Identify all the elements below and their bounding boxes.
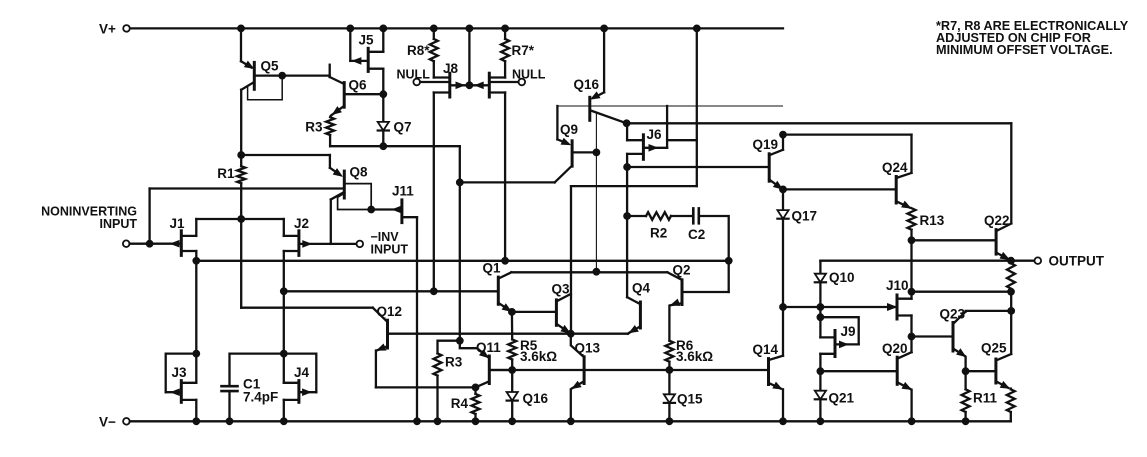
jfet J6	[627, 135, 667, 160]
label Q2	[673, 263, 691, 278]
junction R1 / input pair	[238, 216, 245, 223]
transistor Q22	[996, 224, 1011, 260]
label Q17	[792, 209, 818, 224]
diode Q16 bottom	[507, 370, 518, 421]
wire J2 top to pair rail	[283, 219, 285, 236]
junction Q6 base node	[380, 91, 387, 98]
resistor R3	[326, 117, 334, 135]
label NULL right	[512, 68, 546, 82]
wire Q13 emitter down	[570, 389, 572, 421]
transistor Q6	[330, 65, 384, 116]
svg-text:Q11: Q11	[476, 340, 501, 355]
junction Q22 emitter / output	[1008, 257, 1015, 264]
svg-text:J4: J4	[294, 365, 310, 380]
wire J10 drain up	[910, 292, 912, 299]
junction J4 top	[280, 350, 287, 357]
svg-text:J2: J2	[294, 216, 309, 231]
svg-text:Q6: Q6	[349, 78, 368, 93]
svg-text:J10: J10	[886, 278, 909, 293]
svg-text:3.6kΩ: 3.6kΩ	[520, 349, 557, 364]
wire V+ rail	[130, 27, 783, 29]
label J1	[170, 216, 186, 231]
transistor Q5	[241, 62, 330, 90]
wire J4 drain	[283, 354, 285, 383]
svg-text:Q15: Q15	[677, 392, 703, 407]
junction V- rail / R3b	[434, 418, 441, 425]
junction on V+ rail (R8)	[430, 25, 437, 32]
svg-text:R11: R11	[973, 391, 998, 406]
label Q22	[984, 213, 1010, 228]
junction null center	[466, 82, 473, 89]
wire C1 top lead	[230, 354, 284, 387]
wire J3 source to V-	[195, 400, 197, 421]
wire J3 gate loop	[166, 354, 197, 393]
jfet J11	[371, 200, 417, 223]
wire bus y291 to Q25 collector	[912, 291, 1012, 293]
wire bus y182 to Q9 collector	[460, 181, 555, 183]
junction Q8 loop / J11 gate	[368, 206, 375, 213]
resistor R2	[646, 212, 671, 220]
note R7 R8	[936, 19, 1129, 57]
label Q10	[829, 270, 855, 285]
label R6 value	[676, 338, 713, 364]
jfet J9	[820, 331, 858, 357]
wire Q2 emitter to R6	[668, 306, 670, 341]
label Q4	[632, 281, 651, 296]
svg-text:J5: J5	[359, 33, 375, 48]
label Q12	[377, 304, 403, 319]
wire J6 source down	[626, 154, 628, 297]
label R3 second	[445, 355, 463, 370]
svg-text:Q12: Q12	[377, 304, 403, 319]
label R3	[305, 120, 323, 135]
wire J8 source down	[433, 93, 435, 292]
junction J9 top	[817, 314, 824, 321]
junction Q23 collector / Q25 collector	[1008, 308, 1015, 315]
junction V- rail / J4	[280, 418, 287, 425]
wire R13 node down	[910, 240, 912, 291]
svg-text:V+: V+	[99, 22, 116, 37]
wire NULL left lead	[420, 81, 450, 83]
svg-text:INPUT: INPUT	[100, 217, 138, 231]
label Q24	[882, 160, 908, 175]
transistor Q1	[498, 272, 511, 311]
wire y186 over to mirror	[571, 185, 697, 187]
junction V- rail / C1	[226, 418, 233, 425]
junction V- rail / R11	[962, 418, 969, 425]
jfet J2	[284, 231, 311, 256]
label C1 value	[243, 377, 278, 405]
svg-text:Q1: Q1	[483, 261, 502, 276]
wire output bus	[820, 260, 1034, 262]
label Q9	[560, 122, 578, 137]
wire to Q25 base	[966, 370, 996, 372]
node V+ label	[99, 22, 116, 37]
label Q1	[483, 261, 502, 276]
resistor R13	[908, 208, 916, 240]
wire Q8 collector down	[330, 200, 332, 244]
svg-text:Q17: Q17	[792, 209, 818, 224]
svg-text:NULL: NULL	[512, 68, 546, 82]
label R5 value	[520, 338, 557, 364]
svg-text:MINIMUM OFFSET VOLTAGE.: MINIMUM OFFSET VOLTAGE.	[936, 43, 1113, 57]
svg-text:R7*: R7*	[512, 43, 535, 58]
svg-text:Q4: Q4	[632, 281, 651, 296]
terminal NULL right	[519, 79, 526, 86]
svg-text:Q9: Q9	[560, 122, 578, 137]
wire J9 drain	[819, 307, 821, 337]
svg-text:3.6kΩ: 3.6kΩ	[676, 349, 713, 364]
svg-text:Q7: Q7	[394, 120, 412, 135]
wire Q19 collector up	[782, 135, 784, 150]
wire input lead	[130, 243, 182, 245]
wire Q23 collector to Q25 column	[966, 310, 1012, 313]
svg-text:Q23: Q23	[940, 307, 966, 322]
wire Q16 base bus thin	[557, 105, 782, 107]
svg-text:J3: J3	[172, 365, 188, 380]
label J6	[647, 127, 663, 142]
label V-	[99, 415, 116, 430]
svg-text:Q2: Q2	[673, 263, 691, 278]
wire bus R1 top to Q8	[241, 155, 339, 174]
junction Q9 base vert / collector rail	[593, 268, 600, 275]
resistor R5	[508, 312, 516, 370]
wire J5 drain to V+	[382, 28, 384, 51]
wire V- rail	[130, 420, 1011, 422]
label J8	[443, 61, 459, 76]
wire bus J1 drain y260	[196, 260, 728, 262]
junction J2 drain	[280, 288, 287, 295]
label NONINVERTING INPUT	[41, 205, 137, 232]
jfet J1	[171, 231, 196, 256]
wire Q9 emitter from base bus	[557, 106, 567, 144]
junction on V+ rail (bias column)	[693, 25, 700, 32]
wire bus to Q20 base	[820, 370, 897, 372]
wire vertical to Q12 area	[459, 182, 461, 340]
junction Q5 collector / R1 top	[238, 152, 245, 159]
wire Q13 collector	[571, 334, 584, 358]
wire J4 source to V-	[283, 400, 285, 421]
transistor Q19	[769, 150, 783, 189]
diode Q10	[815, 261, 826, 307]
capacitor C1	[222, 386, 238, 391]
svg-text:R4: R4	[451, 396, 469, 411]
svg-text:J8: J8	[443, 61, 459, 76]
junction R6 / base bus	[666, 367, 673, 374]
junction J3 top	[193, 350, 200, 357]
svg-text:R1: R1	[217, 166, 235, 181]
resistor Q25 emitter	[1007, 389, 1015, 422]
junction V- rail / Q20	[908, 418, 915, 425]
svg-text:Q3: Q3	[552, 281, 571, 296]
label R7*	[512, 43, 535, 58]
label Q21	[829, 391, 855, 406]
svg-text:J1: J1	[170, 216, 186, 231]
wire Q22 collector up	[1010, 123, 1012, 223]
junction Q16 collector	[623, 120, 630, 127]
wire bias bus y146	[330, 145, 460, 147]
capacitor C2	[693, 208, 699, 223]
wire Q23 emitter down	[964, 357, 966, 371]
wire bus y134 to Q24	[783, 133, 912, 135]
label Q25	[981, 341, 1007, 356]
label J9	[841, 324, 856, 339]
terminal V-	[123, 418, 130, 425]
wire R3b top	[438, 341, 460, 354]
resistor R6	[665, 341, 673, 370]
svg-text:INPUT: INPUT	[371, 242, 409, 256]
wire Q2 emitter arrow	[671, 300, 680, 306]
terminal NULL left	[413, 79, 420, 86]
wire Q14 emitter down	[782, 389, 784, 421]
wire input up to Q8 base	[148, 189, 150, 244]
wire J1 drain down	[195, 251, 197, 354]
svg-text:R3: R3	[445, 355, 463, 370]
wire bus to Q19 base	[627, 166, 769, 168]
label J11	[392, 184, 414, 199]
svg-text:V−: V−	[99, 415, 116, 430]
junction V- rail / Q14	[780, 418, 787, 425]
svg-text:R3: R3	[305, 120, 323, 135]
junction Q9 base	[593, 149, 600, 156]
wire J1 top to pair rail	[195, 219, 197, 236]
wire R2-C2 link	[671, 215, 693, 217]
label R11	[973, 391, 998, 406]
label J2	[294, 216, 309, 231]
wire J8b source down	[504, 93, 506, 261]
transistor Q9	[555, 139, 597, 183]
wire J3 drain	[195, 354, 197, 383]
label Q13	[575, 341, 601, 356]
junction Q23 base tap	[908, 333, 915, 340]
resistor R3 second	[434, 353, 442, 375]
wire to Q23 base	[912, 335, 954, 337]
junction J8 source / bus	[430, 288, 437, 295]
svg-text:7.4pF: 7.4pF	[243, 390, 278, 405]
jfet J10	[888, 295, 912, 319]
label Q16 bottom	[523, 391, 549, 406]
label R2	[650, 226, 667, 241]
transistor Q16	[590, 92, 627, 123]
svg-text:Q22: Q22	[984, 213, 1010, 228]
jfet J5	[353, 48, 383, 71]
resistor R11	[962, 371, 970, 421]
transistor Q20	[897, 352, 911, 389]
transistor Q13	[489, 357, 768, 389]
wire Q8 base loop	[338, 184, 372, 210]
svg-text:Q24: Q24	[882, 160, 908, 175]
wire J2 drain down	[283, 251, 285, 354]
junction J9 source / Q20 base	[817, 368, 824, 375]
wire J5 gate from V+	[350, 28, 368, 61]
wire bus J2 drain y291	[284, 290, 499, 292]
label J4	[294, 365, 310, 380]
junction J1 drain	[193, 257, 200, 264]
wire J9 gate loop	[820, 317, 858, 344]
junction R5 / base bus	[509, 367, 516, 374]
label Q20	[882, 341, 908, 356]
junction on V+ rail (Q16 emitter)	[601, 25, 608, 32]
wire Q16 emitter from V+	[594, 28, 605, 97]
junction on V+ rail (Q5 emitter)	[238, 25, 245, 32]
wire Q4 emitter corner	[628, 332, 629, 335]
label J10	[886, 278, 909, 293]
transistor Q2	[667, 272, 728, 305]
junction Q10 bottom	[817, 304, 824, 311]
wire Q20 emitter down	[910, 390, 912, 422]
wire J5 source down	[382, 69, 384, 122]
label R13	[920, 213, 945, 228]
wire Q3/Q4 emitter bus	[571, 333, 628, 335]
svg-text:Q21: Q21	[829, 391, 855, 406]
transistor Q24	[896, 173, 911, 208]
junction on V+ rail (J5 drain)	[380, 25, 387, 32]
junction V- rail / R4	[472, 418, 479, 425]
diode Q15	[664, 370, 675, 421]
wire J4 gate loop	[284, 354, 317, 393]
wire Q5 emitter from V+	[241, 28, 252, 67]
label Q8	[350, 165, 369, 180]
junction output resistor bottom	[1008, 288, 1015, 295]
terminal OUTPUT	[1035, 257, 1042, 264]
junction Q3 emitter node	[567, 330, 574, 337]
wire Q11 emitter lead	[460, 341, 488, 357]
svg-text:R13: R13	[920, 213, 945, 228]
wire J6 gate up	[666, 106, 668, 148]
resistor R4	[472, 387, 480, 421]
node Q5 base junction	[279, 72, 286, 79]
svg-text:J6: J6	[647, 127, 663, 142]
wire J6 drain up	[626, 123, 628, 140]
transistor Q25	[996, 354, 1011, 388]
resistor output series	[1007, 263, 1015, 288]
junction Q1 emitter	[509, 309, 516, 316]
wire bus y189 to Q24 base	[783, 188, 896, 190]
svg-text:Q20: Q20	[882, 341, 908, 356]
wire Q12 emitter bus	[376, 386, 476, 388]
svg-text:Q5: Q5	[261, 59, 280, 74]
label C2	[688, 227, 705, 242]
wire null center from V+	[468, 28, 470, 85]
wire bus to Q22 base	[912, 239, 997, 241]
svg-text:Q19: Q19	[753, 137, 779, 152]
wire NULL right lead	[489, 81, 518, 83]
wire C1 bottom lead	[228, 391, 230, 421]
label Q23	[940, 307, 966, 322]
diode Q21	[815, 371, 826, 421]
wire R3b bottom	[436, 376, 438, 422]
svg-text:Q16: Q16	[523, 391, 549, 406]
terminal inverting input	[357, 241, 364, 248]
resistor R8*	[430, 28, 438, 77]
wire R2 lead	[627, 215, 646, 217]
transistor Q11	[477, 350, 512, 387]
wire R3 bottom	[329, 135, 331, 146]
label J3	[172, 365, 188, 380]
wire Q14 collector up	[782, 307, 784, 356]
wire C2 to Q2 base	[699, 216, 729, 292]
junction Q19 collector	[780, 131, 787, 138]
wire bias column	[696, 28, 698, 186]
label OUTPUT	[1049, 254, 1105, 269]
jfet J4	[284, 381, 317, 403]
wire Q1/Q2 collector rail	[511, 271, 667, 273]
junction Q17 bottom node	[780, 304, 787, 311]
junction R2 tap	[624, 213, 631, 220]
svg-text:Q14: Q14	[753, 342, 779, 357]
transistor Q14	[769, 356, 784, 389]
svg-text:OUTPUT: OUTPUT	[1049, 254, 1105, 269]
svg-text:R8*: R8*	[407, 43, 430, 58]
wire input pair top rail	[196, 218, 283, 220]
label NULL left	[397, 68, 431, 82]
wire Q1 emitter to Q3 base	[512, 311, 557, 313]
junction J8b source / J1 bus	[502, 257, 509, 264]
resistor R1	[237, 166, 245, 183]
label Q19	[753, 137, 779, 152]
junction R13 bottom	[908, 237, 915, 244]
svg-text:Q13: Q13	[575, 341, 601, 356]
transistor Q12	[377, 320, 571, 350]
wire J9 source down	[819, 354, 821, 371]
terminal V+	[123, 25, 130, 32]
label Q15	[677, 392, 703, 407]
wire Q4 collector	[627, 297, 640, 304]
junction J6 source node	[624, 164, 631, 171]
wire J2 gate to -INV	[299, 243, 357, 245]
label J5	[359, 33, 375, 48]
junction V- rail / J3	[193, 418, 200, 425]
label R4	[451, 396, 469, 411]
junction V- rail / Q16 diode	[509, 418, 516, 425]
wire branch to J6 gate	[667, 139, 697, 141]
transistor Q8	[150, 169, 345, 200]
junction J10 drain node	[908, 288, 915, 295]
wire J11 source down	[416, 217, 418, 421]
diode Q17	[777, 189, 788, 307]
label Q14	[753, 342, 779, 357]
junction V- rail / J11	[414, 418, 421, 425]
wire J10 source down	[910, 316, 912, 353]
junction input node	[146, 240, 153, 247]
terminal noninverting input	[123, 240, 130, 247]
diode Q7	[378, 122, 389, 131]
label Q11	[476, 340, 501, 355]
junction Q23 emitter / R11	[962, 368, 969, 375]
label R1	[217, 166, 235, 181]
wire bus y307 to J10 gate	[783, 304, 896, 310]
label Q6	[349, 78, 368, 93]
junction V- rail / Q21	[817, 418, 824, 425]
junction on V+ rail (R7)	[502, 25, 509, 32]
junction C2 / J1 bus	[725, 257, 732, 264]
label -INV INPUT	[371, 230, 409, 256]
wire Q5 collector down to R1	[240, 90, 242, 166]
wire Q5 base-collector loop	[248, 76, 283, 100]
svg-text:Q16: Q16	[574, 77, 600, 92]
wire vertical to Q13 node	[570, 186, 572, 334]
svg-text:J11: J11	[392, 184, 414, 199]
svg-text:Q25: Q25	[981, 341, 1007, 356]
transistor Q4	[629, 302, 640, 333]
wire bus y146 corner down	[459, 146, 461, 182]
label Q16 top	[574, 77, 600, 92]
svg-text:R2: R2	[650, 226, 667, 241]
junction R4 top	[472, 384, 479, 391]
wire R1 bottom	[240, 183, 242, 307]
label Q7	[394, 120, 412, 135]
junction Q11 node	[456, 337, 463, 344]
